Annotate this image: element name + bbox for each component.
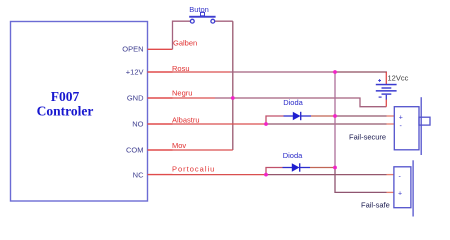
svg-text:Galben: Galben — [173, 38, 197, 47]
diode D2 — [283, 163, 311, 171]
svg-text:+: + — [398, 190, 402, 197]
battery plus marker — [378, 79, 381, 82]
svg-text:NC: NC — [133, 171, 144, 180]
wire diode 1 to junction — [311, 115, 335, 117]
svg-text:Fail-secure: Fail-secure — [349, 132, 386, 141]
pin NO stub — [148, 123, 173, 125]
wire vertical button down to COM line — [232, 21, 234, 150]
wire branch up to diode 2 — [266, 168, 283, 175]
svg-text:Portocaliu: Portocaliu — [172, 164, 215, 173]
lock Fail-secure body — [394, 97, 430, 155]
svg-text:-: - — [399, 174, 402, 181]
svg-text:Mov: Mov — [172, 141, 186, 150]
svg-text:OPEN: OPEN — [122, 45, 143, 54]
wire junction to Fail-secure plus — [335, 115, 387, 117]
svg-text:Albastru: Albastru — [172, 115, 200, 124]
wire Portocaliu NC red part — [173, 174, 267, 176]
svg-text:Rosu: Rosu — [172, 64, 190, 73]
svg-text:12Vcc: 12Vcc — [388, 73, 409, 82]
svg-text:Buton: Buton — [189, 5, 209, 14]
pin stub Fail-safe plus — [387, 191, 394, 193]
junction NC-diode2 — [264, 173, 268, 177]
svg-text:+12V: +12V — [126, 68, 144, 77]
svg-text:GND: GND — [127, 94, 144, 103]
wire junction down to Fail-safe plus — [335, 168, 387, 193]
battery minus marker — [379, 97, 382, 98]
controller box U1 F007 — [11, 22, 148, 202]
junction GND-button — [231, 96, 235, 100]
svg-text:Dioda: Dioda — [283, 151, 303, 160]
pin +12V stub — [148, 71, 173, 73]
junction +12V branch — [333, 70, 337, 74]
pin stub Fail-secure plus — [387, 115, 395, 117]
wire Mov red part — [173, 149, 233, 151]
battery top pin — [385, 72, 387, 84]
label F007 Controler — [37, 89, 94, 119]
svg-text:NO: NO — [132, 120, 143, 129]
wire Rosu mauve part — [230, 71, 335, 73]
pin GND stub — [148, 97, 173, 99]
wire Albastru NO red part — [173, 123, 267, 125]
junction diode2 out — [333, 166, 337, 170]
lock Fail-safe body — [394, 160, 413, 216]
svg-text:Negru: Negru — [172, 89, 192, 98]
battery bottom pin — [385, 99, 387, 107]
wire Negru red part — [173, 97, 216, 99]
pin OPEN stub — [148, 48, 173, 50]
pin NC stub — [148, 174, 173, 176]
svg-text:Fail-safe: Fail-safe — [361, 200, 390, 209]
wire diode 2 to junction — [310, 167, 335, 169]
wire button right to vertical — [215, 20, 233, 22]
wire OPEN vertical up to button — [173, 21, 191, 49]
svg-text:-: - — [400, 123, 403, 130]
svg-text:Dioda: Dioda — [283, 98, 303, 107]
wire branch up to diode 1 — [266, 116, 284, 124]
junction diode1 out — [333, 114, 337, 118]
wire NC continuing to Fail-safe minus — [266, 174, 387, 176]
junction NO-diode1 — [264, 122, 268, 126]
pin stub Fail-safe minus — [387, 174, 394, 176]
svg-text:COM: COM — [126, 146, 144, 155]
wire Rosu to battery corner — [335, 72, 386, 73]
battery B1 — [376, 84, 397, 100]
diode D1 — [284, 112, 312, 120]
svg-text:Controler: Controler — [37, 104, 94, 119]
pin COM stub — [148, 149, 173, 151]
pushbutton S1 Buton — [189, 5, 215, 23]
svg-text:F007: F007 — [51, 89, 80, 104]
pin labels OPEN +12V GND NO COM NC — [122, 45, 144, 180]
wire NO continuing to Fail-secure minus — [266, 123, 387, 125]
svg-text:+: + — [399, 114, 403, 121]
wire Rosu red part — [173, 71, 231, 73]
wire +12V vertical branch — [334, 72, 336, 168]
pin stub Fail-secure minus — [387, 123, 395, 125]
wire Negru mauve part to step — [215, 98, 386, 107]
